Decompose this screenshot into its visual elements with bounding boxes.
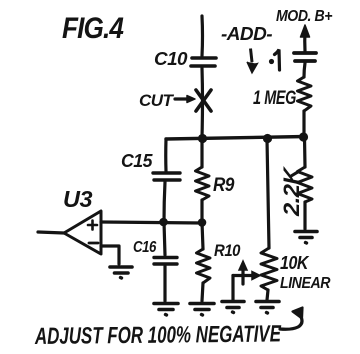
svg-text:1 MEG: 1 MEG bbox=[253, 88, 297, 109]
svg-text:R10: R10 bbox=[214, 241, 241, 260]
svg-text:C15: C15 bbox=[121, 151, 153, 171]
svg-text:MOD. B+: MOD. B+ bbox=[276, 8, 332, 25]
svg-text:FIG.4: FIG.4 bbox=[62, 12, 124, 45]
svg-text:2.2K: 2.2K bbox=[279, 165, 304, 217]
svg-text:U3: U3 bbox=[63, 186, 93, 212]
svg-text:LINEAR: LINEAR bbox=[280, 275, 331, 292]
svg-text:-ADD-: -ADD- bbox=[221, 24, 273, 44]
svg-text:C16: C16 bbox=[133, 239, 156, 256]
svg-text:ADJUST FOR 100% NEGATIVE: ADJUST FOR 100% NEGATIVE bbox=[34, 320, 282, 349]
svg-text:R9: R9 bbox=[213, 175, 235, 196]
svg-text:CUT: CUT bbox=[139, 91, 175, 110]
svg-text:C10: C10 bbox=[154, 49, 188, 69]
svg-text:10K: 10K bbox=[280, 253, 310, 273]
